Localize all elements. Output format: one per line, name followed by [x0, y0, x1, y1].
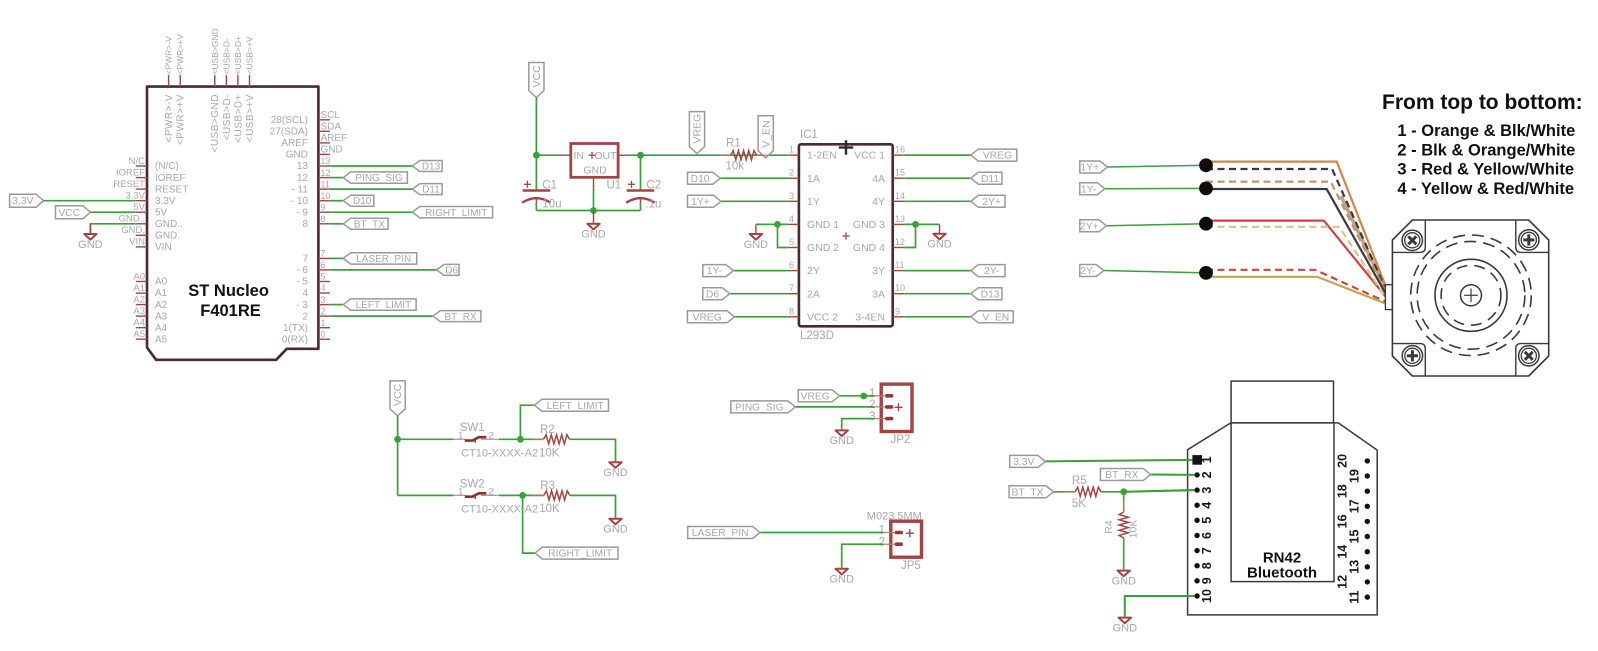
svg-text:RESET: RESET: [155, 184, 188, 195]
svg-text:LASER_PIN: LASER_PIN: [692, 528, 749, 539]
svg-text:SDA: SDA: [321, 122, 342, 133]
svg-text:7: 7: [302, 254, 308, 265]
svg-text:<USB>D+: <USB>D+: [233, 36, 243, 75]
svg-text:9: 9: [321, 202, 326, 212]
svg-text:13: 13: [1347, 560, 1361, 574]
svg-text:16: 16: [895, 145, 905, 155]
svg-text:BT_RX: BT_RX: [444, 312, 477, 323]
svg-text:From top to bottom:: From top to bottom:: [1382, 91, 1583, 114]
svg-text:GND: GND: [581, 229, 606, 241]
svg-text:BT_TX: BT_TX: [354, 219, 385, 230]
svg-text:10K: 10K: [539, 448, 560, 460]
svg-text:1A: 1A: [807, 173, 820, 185]
svg-text:6: 6: [321, 260, 326, 270]
svg-text:A3: A3: [133, 306, 145, 317]
svg-text:11: 11: [321, 179, 330, 189]
svg-text:GND: GND: [829, 435, 854, 447]
svg-text:<PWR>-V: <PWR>-V: [164, 94, 175, 143]
svg-text:19: 19: [1347, 469, 1361, 483]
svg-text:GND: GND: [286, 150, 308, 161]
svg-text:VCC: VCC: [392, 383, 404, 406]
svg-text:1: 1: [458, 487, 463, 498]
svg-text:SW2: SW2: [460, 479, 485, 491]
svg-text:4: 4: [789, 214, 794, 224]
svg-text:VREG: VREG: [801, 391, 830, 402]
svg-text:SW1: SW1: [460, 422, 485, 434]
svg-text:D13: D13: [422, 162, 441, 173]
svg-text:1Y-: 1Y-: [1081, 183, 1097, 195]
svg-text:1Y: 1Y: [807, 196, 820, 208]
svg-text:R3: R3: [540, 480, 555, 492]
svg-text:A4: A4: [155, 323, 168, 334]
svg-text:10: 10: [1200, 589, 1214, 603]
svg-text:7: 7: [321, 249, 326, 259]
svg-text:13: 13: [321, 156, 331, 166]
svg-text:IOREF: IOREF: [116, 167, 145, 178]
svg-text:2: 2: [302, 311, 308, 322]
svg-text:9: 9: [1200, 577, 1214, 584]
svg-text:27(SDA): 27(SDA): [270, 127, 308, 138]
svg-text:3A: 3A: [872, 288, 885, 300]
svg-text:2Y+: 2Y+: [982, 197, 1001, 208]
svg-text:12: 12: [895, 237, 905, 247]
svg-text:RIGHT_LIMIT: RIGHT_LIMIT: [425, 208, 487, 219]
svg-text:10k: 10k: [726, 161, 745, 173]
svg-text:Bluetooth: Bluetooth: [1247, 565, 1317, 582]
svg-text:1Y+: 1Y+: [691, 197, 710, 208]
svg-text:VREG: VREG: [983, 151, 1012, 162]
svg-text:3 - Red & Yellow/White: 3 - Red & Yellow/White: [1397, 161, 1574, 179]
svg-text:A2: A2: [155, 300, 168, 311]
svg-text:IOREF: IOREF: [155, 173, 186, 184]
svg-text:(N/C): (N/C): [155, 161, 179, 172]
svg-text:<USB>D-: <USB>D-: [221, 38, 231, 75]
svg-text:GND 4: GND 4: [853, 242, 885, 254]
svg-text:20: 20: [1335, 454, 1349, 468]
svg-text:VIN: VIN: [155, 242, 172, 253]
svg-text:- 11: - 11: [292, 184, 309, 195]
svg-text:11: 11: [895, 260, 904, 270]
svg-text:1Y-: 1Y-: [707, 266, 722, 277]
svg-text:GND: GND: [78, 239, 103, 251]
svg-text:- 3: - 3: [296, 300, 308, 311]
svg-text:3: 3: [869, 409, 876, 423]
svg-text:3.3V: 3.3V: [1013, 457, 1034, 468]
svg-text:PING_SIG: PING_SIG: [735, 403, 784, 414]
svg-text:GND..: GND..: [155, 219, 183, 230]
svg-text:<USB>+V: <USB>+V: [245, 36, 255, 74]
svg-text:GND: GND: [321, 145, 343, 156]
svg-text:3.3V: 3.3V: [155, 196, 176, 207]
svg-text:ST Nucleo: ST Nucleo: [188, 282, 269, 300]
svg-text:3-4EN: 3-4EN: [855, 311, 885, 323]
svg-text:4Y: 4Y: [872, 196, 885, 208]
svg-text:3: 3: [789, 191, 794, 201]
svg-text:D13: D13: [981, 289, 1000, 300]
svg-text:15: 15: [895, 168, 905, 178]
svg-text:A4: A4: [133, 318, 145, 329]
svg-text:2Y-: 2Y-: [1080, 265, 1096, 277]
svg-text:6: 6: [789, 260, 794, 270]
svg-text:10: 10: [895, 283, 905, 293]
svg-text:<USB>GND: <USB>GND: [210, 94, 221, 152]
svg-text:2 - Blk & Orange/White: 2 - Blk & Orange/White: [1397, 141, 1575, 159]
svg-text:8: 8: [1200, 562, 1214, 569]
svg-text:LEFT_LIMIT: LEFT_LIMIT: [547, 401, 605, 412]
svg-text:8: 8: [321, 214, 326, 224]
svg-text:2Y: 2Y: [807, 265, 820, 277]
svg-text:D11: D11: [981, 174, 999, 185]
svg-text:<USB>D-: <USB>D-: [222, 94, 233, 140]
svg-text:.1u: .1u: [645, 199, 661, 211]
svg-text:8: 8: [789, 306, 794, 316]
svg-text:R2: R2: [540, 424, 555, 436]
svg-text:11: 11: [1347, 590, 1361, 603]
svg-text:BT_TX: BT_TX: [1011, 487, 1043, 498]
svg-text:A0: A0: [133, 271, 145, 282]
svg-text:- 5: - 5: [296, 277, 308, 288]
svg-text:0(RX): 0(RX): [282, 334, 308, 345]
svg-text:8: 8: [302, 219, 308, 230]
svg-text:1Y+: 1Y+: [1080, 162, 1099, 174]
svg-text:PING_SIG: PING_SIG: [355, 173, 402, 184]
svg-text:GND 3: GND 3: [853, 219, 885, 231]
svg-text:D10: D10: [691, 174, 710, 185]
svg-text:14: 14: [895, 191, 905, 201]
svg-text:V_EN: V_EN: [760, 120, 772, 147]
svg-text:R5: R5: [1072, 475, 1087, 487]
svg-text:5: 5: [789, 237, 794, 247]
svg-text:4 - Yellow & Red/White: 4 - Yellow & Red/White: [1397, 180, 1574, 198]
svg-text:GND: GND: [829, 574, 854, 586]
svg-text:VREG: VREG: [692, 114, 704, 144]
svg-text:GND: GND: [1113, 622, 1138, 634]
svg-text:GND: GND: [603, 524, 628, 536]
svg-text:GND.: GND.: [121, 225, 145, 236]
svg-text:VIN: VIN: [129, 237, 145, 248]
svg-text:10K: 10K: [539, 503, 560, 515]
svg-text:BT_RX: BT_RX: [1105, 470, 1138, 481]
svg-text:2: 2: [489, 430, 494, 441]
svg-text:A1: A1: [155, 288, 168, 299]
svg-text:A0: A0: [155, 277, 168, 288]
svg-text:GND: GND: [927, 239, 952, 251]
svg-text:13: 13: [895, 214, 905, 224]
svg-text:2: 2: [489, 487, 494, 498]
svg-text:VCC 1: VCC 1: [854, 150, 885, 162]
svg-text:CT10-XXXX-A2: CT10-XXXX-A2: [461, 448, 538, 460]
svg-text:9: 9: [895, 306, 900, 316]
svg-text:VCC: VCC: [531, 65, 543, 88]
svg-text:RESET: RESET: [113, 179, 145, 190]
svg-text:2Y+: 2Y+: [1080, 220, 1099, 232]
svg-text:28(SCL): 28(SCL): [271, 115, 308, 126]
svg-text:CT10-XXXX-A2: CT10-XXXX-A2: [461, 504, 538, 516]
svg-text:<PWR>+V: <PWR>+V: [175, 34, 185, 75]
svg-text:15: 15: [1347, 530, 1361, 544]
svg-text:A5: A5: [133, 329, 145, 340]
svg-text:A3: A3: [155, 311, 168, 322]
svg-text:17: 17: [1347, 499, 1361, 513]
svg-text:7: 7: [789, 283, 794, 293]
svg-text:AREF: AREF: [321, 133, 348, 144]
svg-text:RIGHT_LIMIT: RIGHT_LIMIT: [548, 549, 613, 560]
svg-text:A2: A2: [133, 294, 145, 305]
svg-text:U1: U1: [607, 180, 622, 192]
svg-text:AREF: AREF: [281, 138, 308, 149]
svg-text:OUT: OUT: [594, 150, 617, 162]
svg-text:1: 1: [321, 318, 326, 328]
svg-text:13: 13: [297, 161, 309, 172]
svg-text:10: 10: [321, 191, 331, 201]
svg-text:- 6: - 6: [296, 265, 308, 276]
svg-text:2: 2: [789, 168, 794, 178]
svg-text:12: 12: [1335, 575, 1349, 589]
svg-text:4: 4: [1200, 502, 1214, 509]
svg-text:1 - Orange & Blk/White: 1 - Orange & Blk/White: [1397, 122, 1575, 140]
svg-text:14: 14: [1335, 545, 1349, 559]
svg-text:1: 1: [789, 145, 794, 155]
svg-text:D6: D6: [706, 289, 719, 300]
svg-text:7: 7: [1200, 547, 1214, 554]
svg-text:18: 18: [1335, 484, 1349, 498]
svg-text:GND: GND: [583, 165, 607, 177]
svg-text:VCC 2: VCC 2: [807, 311, 838, 323]
svg-text:N/C: N/C: [129, 156, 146, 167]
svg-text:LEFT_LIMIT: LEFT_LIMIT: [356, 300, 412, 311]
svg-text:2: 2: [1200, 471, 1214, 478]
svg-text:A5: A5: [155, 334, 168, 345]
svg-text:4A: 4A: [872, 173, 885, 185]
svg-text:GND 1: GND 1: [807, 219, 839, 231]
svg-text:1(TX): 1(TX): [283, 323, 308, 334]
svg-text:JP2: JP2: [891, 434, 911, 446]
svg-text:6: 6: [1200, 532, 1214, 539]
svg-text:10K: 10K: [1128, 520, 1140, 539]
svg-text:3Y: 3Y: [872, 265, 885, 277]
svg-text:0: 0: [321, 329, 326, 339]
svg-text:<PWR>-V: <PWR>-V: [164, 36, 174, 75]
svg-text:GND: GND: [744, 239, 769, 251]
svg-text:L293D: L293D: [800, 330, 834, 342]
svg-text:4: 4: [321, 283, 326, 293]
svg-text:VREG: VREG: [693, 312, 722, 323]
svg-text:1-2EN: 1-2EN: [807, 150, 837, 162]
svg-text:A1: A1: [133, 283, 145, 294]
svg-text:10u: 10u: [542, 199, 561, 211]
svg-text:GND.: GND.: [155, 231, 180, 242]
svg-text:D6: D6: [445, 266, 458, 277]
svg-text:R4: R4: [1103, 520, 1115, 534]
svg-text:GND 2: GND 2: [807, 242, 839, 254]
svg-text:<USB>D+: <USB>D+: [233, 94, 244, 143]
svg-text:2: 2: [879, 534, 886, 548]
svg-text:2Y-: 2Y-: [984, 266, 999, 277]
svg-text:C1: C1: [542, 179, 557, 191]
svg-text:V_EN: V_EN: [982, 312, 1009, 323]
svg-text:D10: D10: [353, 196, 372, 207]
svg-text:1: 1: [458, 430, 463, 441]
svg-text:GND: GND: [603, 467, 628, 479]
svg-text:5K: 5K: [1072, 498, 1086, 510]
svg-text:4: 4: [302, 288, 308, 299]
svg-text:- 10: - 10: [291, 196, 309, 207]
svg-text:12: 12: [297, 173, 309, 184]
svg-text:12: 12: [321, 168, 331, 178]
svg-text:SCL: SCL: [321, 110, 341, 121]
svg-text:2: 2: [321, 306, 326, 316]
svg-text:3: 3: [1200, 487, 1214, 494]
svg-text:GND: GND: [1111, 575, 1136, 587]
svg-text:- 9: - 9: [296, 207, 308, 218]
svg-text:IC1: IC1: [800, 129, 818, 141]
svg-text:C2: C2: [646, 179, 661, 191]
svg-text:16: 16: [1335, 514, 1349, 528]
svg-text:<PWR>+V: <PWR>+V: [176, 94, 187, 145]
svg-text:R1: R1: [726, 138, 741, 150]
svg-text:<USB>+V: <USB>+V: [245, 94, 256, 142]
svg-text:1: 1: [1200, 456, 1214, 463]
svg-text:5V: 5V: [155, 207, 168, 218]
svg-text:D11: D11: [422, 185, 440, 196]
svg-text:JP5: JP5: [901, 560, 921, 572]
svg-text:3.3V: 3.3V: [12, 196, 33, 207]
svg-text:IN: IN: [574, 150, 585, 162]
svg-text:2A: 2A: [807, 288, 820, 300]
svg-text:VCC: VCC: [58, 208, 80, 219]
svg-text:3: 3: [321, 295, 326, 305]
svg-text:LASER_PIN: LASER_PIN: [356, 254, 411, 265]
svg-text:5: 5: [321, 272, 326, 282]
svg-text:F401RE: F401RE: [200, 302, 261, 320]
svg-text:5: 5: [1200, 517, 1214, 524]
svg-text:<USB>GND: <USB>GND: [210, 28, 220, 74]
